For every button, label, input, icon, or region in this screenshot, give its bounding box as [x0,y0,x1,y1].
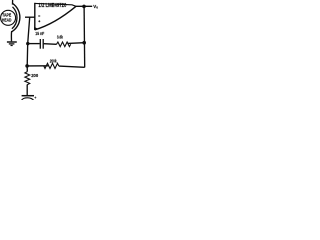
wire 3.6k to feedback junction [68,42,84,45]
wire 200k to node junction [28,65,49,67]
capacitor 15nF left plate [39,39,41,49]
node vertical wire (leaning, scan) [27,17,30,71]
op-amp bottom-left corner ink blob [34,27,38,31]
svg-text:200: 200 [31,73,38,78]
svg-text:1/2 LME49720: 1/2 LME49720 [38,3,66,9]
svg-text:3.6k: 3.6k [57,35,64,40]
op-amp minus sign [38,15,40,17]
feedback bottom horizontal to 200k [59,66,85,67]
15nF branch wire from node [28,43,40,45]
op-amp top edge [35,3,76,6]
op-amp bottom edge [35,6,76,30]
junction dot 3.6k feedback [82,41,86,45]
tape head outer tape arc [12,3,20,32]
svg-text:15 nF: 15 nF [35,31,44,36]
tape head inner tape arc [12,7,17,29]
svg-text:+: + [34,96,36,100]
resistor 3.6k zigzag [57,42,71,47]
op-amp U1 triangle left edge [34,3,36,30]
tape head circle [1,10,16,25]
svg-text:200k: 200k [50,58,57,63]
input stub wire into op-amp [25,16,35,18]
electrolytic cap top plate [22,95,34,97]
junction dot 200k node [25,64,29,68]
wire from tape head top (cut at image top edge) [12,0,14,5]
ground symbol [7,41,17,43]
wire cap to 3.6k [44,43,57,46]
svg-text:0: 0 [96,5,98,9]
wire head to ground [10,31,12,41]
output wire to Vo [76,5,92,7]
junction dot 15nF node [26,42,29,45]
wire 200 to cap [26,85,28,96]
capacitor 15nF right plate [42,39,44,49]
electrolytic cap bottom curved plate (cut at bottom) [22,98,34,101]
svg-text:HEAD: HEAD [2,18,12,24]
resistor 200 vertical zigzag [25,72,30,85]
op-amp plus sign [38,20,40,22]
junction dot at output [82,5,86,9]
feedback vertical wire [83,6,86,67]
resistor 200k zigzag [44,63,59,68]
